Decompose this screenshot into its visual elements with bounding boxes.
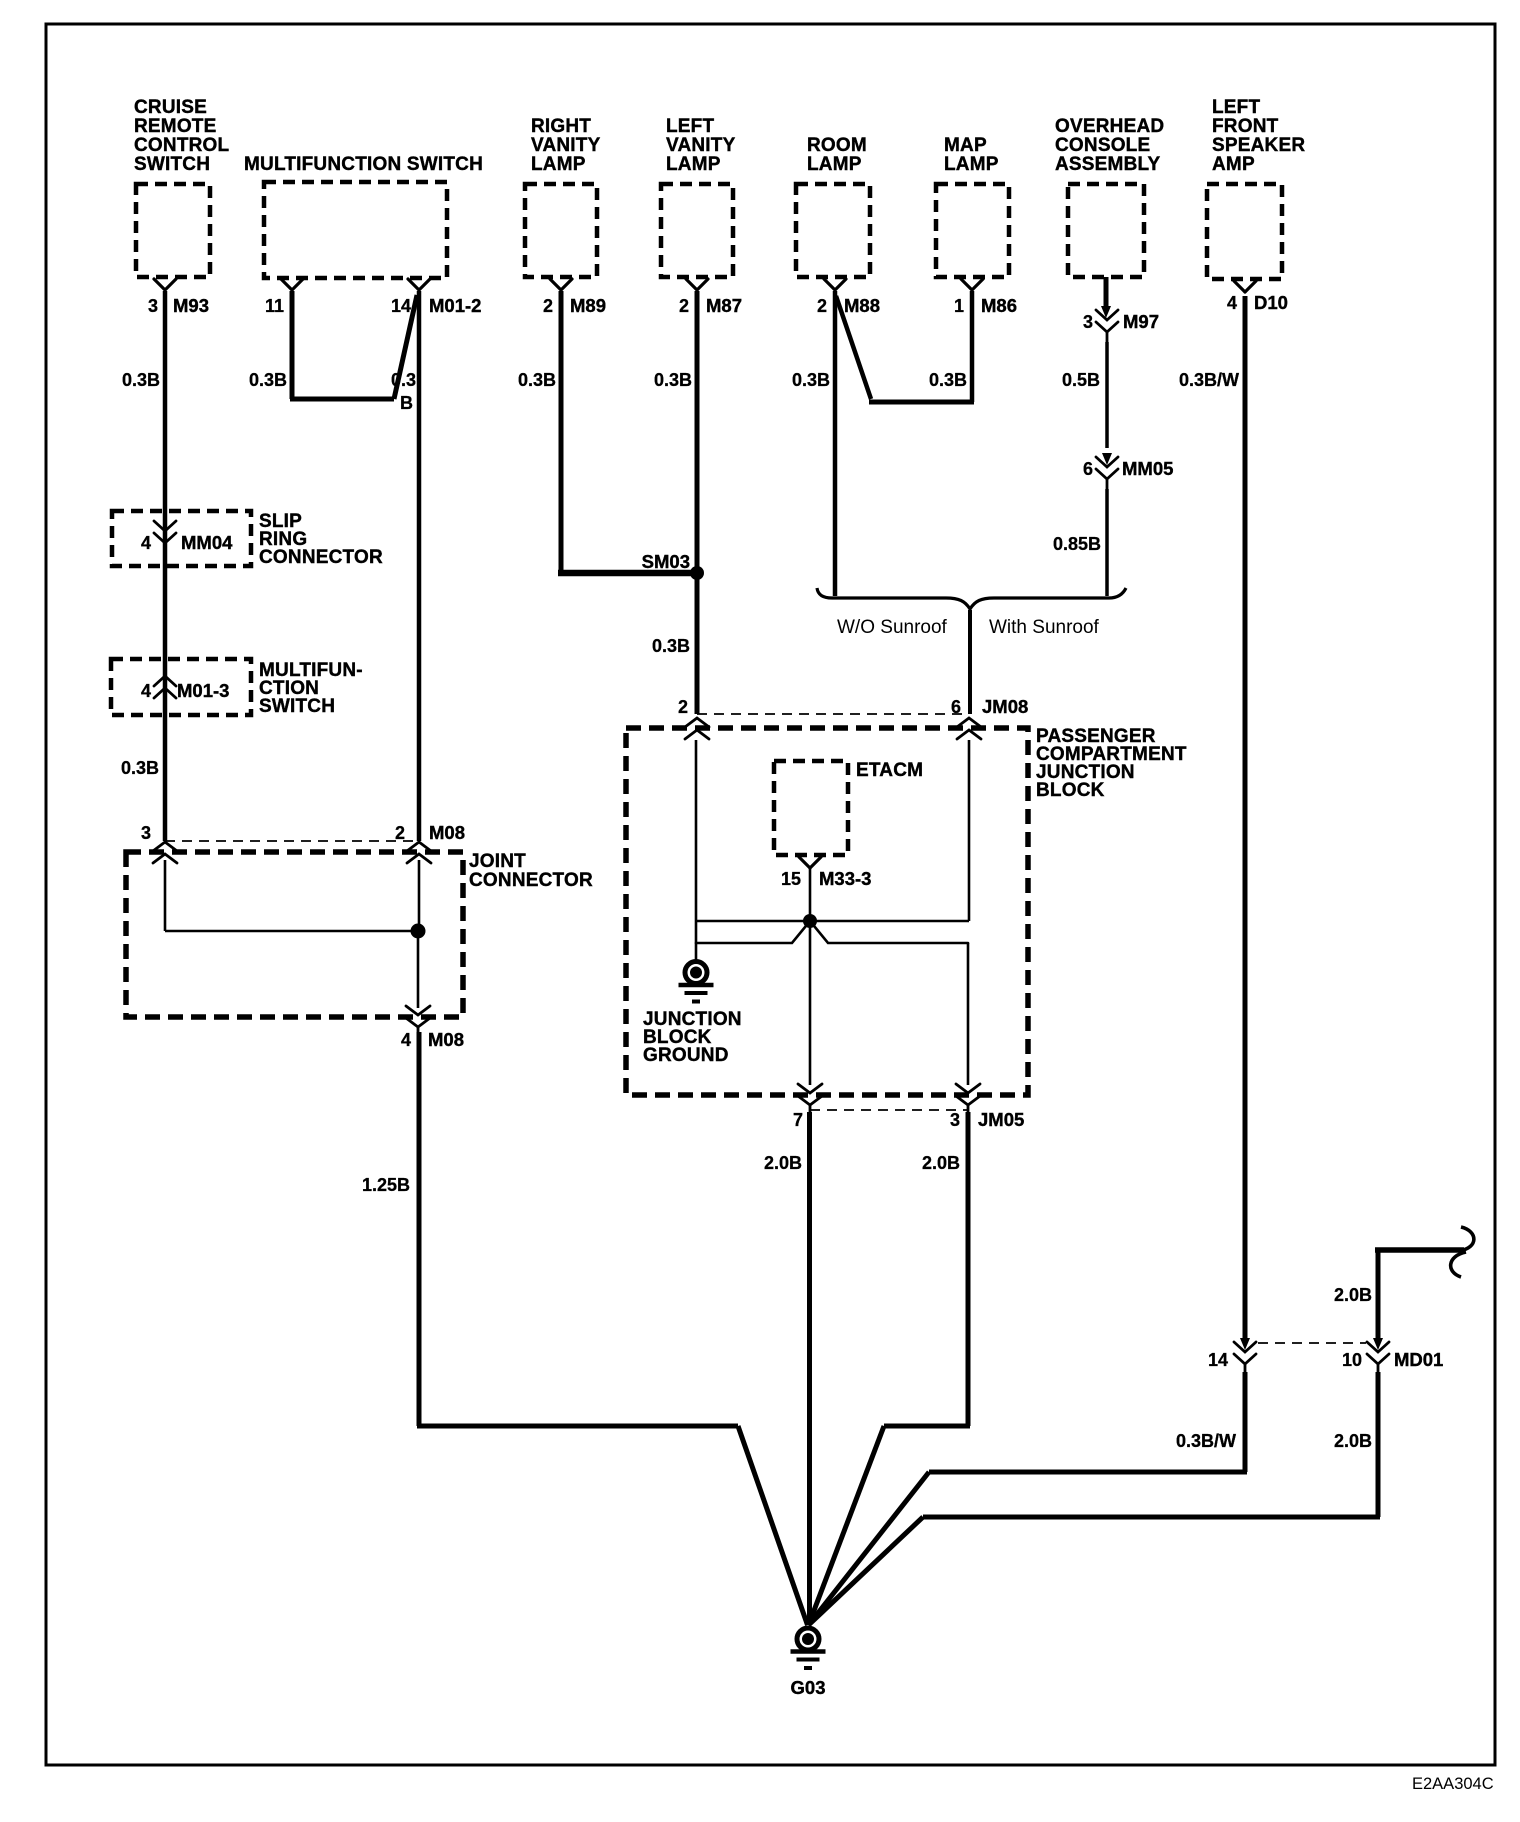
svg-text:LAMP: LAMP (944, 154, 999, 175)
svg-text:MD01: MD01 (1394, 1349, 1443, 1370)
svg-text:0.3B: 0.3B (249, 370, 287, 390)
svg-text:2.0B: 2.0B (764, 1153, 802, 1173)
svg-text:2.0B: 2.0B (1334, 1285, 1372, 1305)
svg-text:ETACM: ETACM (856, 760, 923, 781)
svg-text:11: 11 (265, 296, 284, 316)
svg-text:VANITY: VANITY (666, 135, 736, 156)
svg-text:M97: M97 (1123, 311, 1159, 332)
svg-text:MULTIFUNCTION SWITCH: MULTIFUNCTION SWITCH (244, 154, 483, 175)
svg-text:JM05: JM05 (978, 1109, 1024, 1130)
svg-text:LAMP: LAMP (531, 154, 586, 175)
svg-text:4: 4 (141, 533, 151, 553)
svg-text:ASSEMBLY: ASSEMBLY (1055, 154, 1161, 175)
svg-text:6: 6 (1083, 459, 1093, 479)
svg-text:0.3B: 0.3B (652, 636, 690, 656)
svg-text:M88: M88 (844, 295, 880, 316)
svg-text:LAMP: LAMP (807, 154, 862, 175)
svg-text:10: 10 (1342, 1350, 1362, 1370)
svg-text:RIGHT: RIGHT (531, 116, 591, 137)
svg-text:2: 2 (678, 697, 688, 717)
svg-text:AMP: AMP (1212, 154, 1255, 175)
svg-text:SWITCH: SWITCH (259, 696, 335, 717)
svg-text:BLOCK: BLOCK (1036, 780, 1105, 801)
svg-text:3: 3 (950, 1110, 960, 1130)
svg-text:M89: M89 (570, 295, 606, 316)
svg-text:0.3B: 0.3B (654, 370, 692, 390)
svg-text:GROUND: GROUND (643, 1045, 729, 1066)
svg-text:CRUISE: CRUISE (134, 97, 207, 118)
svg-text:2: 2 (395, 823, 405, 843)
svg-text:W/O Sunroof: W/O Sunroof (837, 617, 948, 638)
svg-text:MM05: MM05 (1122, 458, 1173, 479)
svg-text:B: B (400, 393, 413, 413)
svg-text:2: 2 (543, 296, 553, 316)
svg-text:7: 7 (793, 1110, 803, 1130)
svg-text:3: 3 (1083, 312, 1093, 332)
svg-text:0.3B/W: 0.3B/W (1176, 1431, 1236, 1451)
svg-text:OVERHEAD: OVERHEAD (1055, 116, 1164, 137)
svg-text:JOINT: JOINT (469, 851, 526, 872)
svg-text:2.0B: 2.0B (922, 1153, 960, 1173)
svg-text:LAMP: LAMP (666, 154, 721, 175)
svg-text:M93: M93 (173, 295, 209, 316)
svg-text:M87: M87 (706, 295, 742, 316)
svg-text:14: 14 (391, 296, 411, 316)
svg-text:CONTROL: CONTROL (134, 135, 230, 156)
svg-text:0.3B/W: 0.3B/W (1179, 370, 1239, 390)
svg-text:0.85B: 0.85B (1053, 534, 1101, 554)
svg-text:15: 15 (781, 869, 801, 889)
svg-text:M01-3: M01-3 (177, 680, 229, 701)
svg-text:0.3B: 0.3B (122, 370, 160, 390)
svg-text:2: 2 (817, 296, 827, 316)
svg-text:3: 3 (141, 823, 151, 843)
svg-text:2.0B: 2.0B (1334, 1431, 1372, 1451)
svg-text:FRONT: FRONT (1212, 116, 1279, 137)
svg-text:CONNECTOR: CONNECTOR (469, 870, 593, 891)
svg-text:4: 4 (1227, 293, 1237, 313)
svg-text:0.3B: 0.3B (518, 370, 556, 390)
svg-text:CONNECTOR: CONNECTOR (259, 547, 383, 568)
svg-text:0.3B: 0.3B (929, 370, 967, 390)
svg-text:SM03: SM03 (642, 551, 690, 572)
svg-text:CONSOLE: CONSOLE (1055, 135, 1150, 156)
svg-text:0.3B: 0.3B (792, 370, 830, 390)
svg-text:3: 3 (148, 296, 158, 316)
svg-text:ROOM: ROOM (807, 135, 867, 156)
svg-text:4: 4 (141, 681, 151, 701)
svg-text:M33-3: M33-3 (819, 868, 871, 889)
svg-text:G03: G03 (791, 1677, 826, 1698)
svg-text:VANITY: VANITY (531, 135, 601, 156)
svg-text:M01-2: M01-2 (429, 295, 481, 316)
svg-text:M08: M08 (428, 1029, 464, 1050)
svg-text:4: 4 (401, 1030, 411, 1050)
svg-text:LEFT: LEFT (666, 116, 714, 137)
svg-text:1.25B: 1.25B (362, 1175, 410, 1195)
svg-text:E2AA304C: E2AA304C (1412, 1775, 1494, 1793)
svg-text:0.3B: 0.3B (121, 758, 159, 778)
svg-text:SWITCH: SWITCH (134, 154, 210, 175)
svg-text:JM08: JM08 (982, 696, 1028, 717)
svg-text:MM04: MM04 (181, 532, 233, 553)
svg-text:2: 2 (679, 296, 689, 316)
svg-text:D10: D10 (1254, 292, 1288, 313)
svg-text:0.5B: 0.5B (1062, 370, 1100, 390)
svg-text:M86: M86 (981, 295, 1017, 316)
svg-text:M08: M08 (429, 822, 465, 843)
svg-text:LEFT: LEFT (1212, 97, 1260, 118)
svg-text:With Sunroof: With Sunroof (989, 617, 1100, 638)
svg-text:REMOTE: REMOTE (134, 116, 216, 137)
svg-text:SPEAKER: SPEAKER (1212, 135, 1305, 156)
svg-text:14: 14 (1208, 1350, 1228, 1370)
svg-text:MAP: MAP (944, 135, 987, 156)
svg-text:1: 1 (954, 296, 964, 316)
